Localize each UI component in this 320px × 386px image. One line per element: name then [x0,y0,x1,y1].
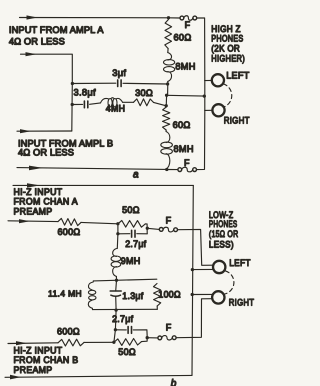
resistor 100ohm (vertical) [154,284,161,307]
node: top rail / 60ohm junction [167,16,170,19]
svg-text:HI-Z INPUT: HI-Z INPUT [14,345,63,355]
node: bottom rail / 8MH junction [165,168,168,171]
wire: LC tank bottom rail [93,308,158,310]
wire: 600ohm to chan B node [84,341,114,343]
capacitor 2.7uf (chan B) branch [115,329,126,331]
wire: stub to RIGHT phone jack (A) [205,109,213,111]
svg-text:FROM CHAN B: FROM CHAN B [14,355,79,365]
wire: 600ohm to chan A node [81,222,118,223]
inductor 11.4MH (vertical, loops left) [88,281,96,310]
resistor 50ohm (chan B) [114,339,142,346]
wire: fuse to corner, down to LEFT jack (B) [178,229,214,265]
phone jack RIGHT (low-Z) [212,291,224,303]
stereo plug dashed arc (B) [225,271,234,294]
inductor 8MH (top A, vertical) [164,53,175,82]
svg-text:60Ω: 60Ω [173,120,191,130]
svg-text:FROM CHAN A: FROM CHAN A [14,197,78,207]
capacitor 2.7uf (chan A) branch [118,224,130,234]
arrow: chan A input [19,219,30,223]
svg-text:2.7μf: 2.7μf [125,239,146,249]
node: LC tank top [115,279,118,282]
svg-text:LEFT: LEFT [226,70,249,81]
node: common tap on middle bus [165,94,168,97]
resistor 60ohm (top A, vertical) [165,20,172,49]
phone jack LEFT (low-Z) [213,261,225,273]
resistor 600ohm (chan A) [58,218,81,225]
svg-text:60Ω: 60Ω [174,33,192,43]
phone jack LEFT (high-Z) [212,74,224,86]
wire: junction to fuse [169,17,181,19]
wire: chan B input lead [8,342,58,345]
svg-text:4Ω OR LESS: 4Ω OR LESS [9,36,65,46]
svg-text:F: F [166,215,172,225]
svg-text:(2K OR: (2K OR [211,44,240,54]
node: chan B left node [112,341,115,344]
arrow: input rail 3 [20,129,31,133]
svg-text:LESS): LESS) [209,239,234,249]
wire: node to fuse (chan B) [147,337,158,339]
arrow: input rail 2 [26,52,37,56]
svg-text:8MH: 8MH [175,61,195,71]
wire: left bus down to input rail 3 [71,84,74,132]
svg-text:(15Ω OR: (15Ω OR [209,229,239,239]
wire: chan A right node vertical [145,224,147,234]
fuse F (chan A) [159,228,163,232]
svg-text:F: F [184,158,190,168]
stereo plug dashed arc (A) [223,84,231,107]
node: 30ohm joins middle bus [165,104,168,107]
svg-text:11.4 MH: 11.4 MH [48,289,82,299]
wire: bottom rail (chan B return) [5,375,192,377]
svg-text:3.8μf: 3.8μf [74,87,96,97]
svg-text:4Ω OR LESS: 4Ω OR LESS [18,148,74,158]
fuse F (chan B) [158,336,162,340]
svg-text:F: F [185,20,191,30]
node: bus / RIGHT jack sleeve stub [191,293,194,296]
svg-text:INPUT FROM AMPL A: INPUT FROM AMPL A [9,25,104,35]
svg-text:100Ω: 100Ω [158,290,181,300]
wire: fuse to right bus bottom corner [197,110,205,169]
svg-text:9MH: 9MH [121,256,141,266]
svg-text:8MH: 8MH [174,144,194,154]
svg-text:50Ω: 50Ω [122,205,140,215]
wire: fuse to top-right corner, right bus down [197,18,205,81]
svg-text:HIGHER): HIGHER) [211,54,245,64]
node: left bus / 3.8uf branch [71,103,74,106]
capacitor 3.8uf [83,101,85,108]
wire: 8MH to 3uf node [167,82,169,96]
wire: bottom rail channel A/B common [17,168,167,170]
fuse F (bottom A) [178,168,182,172]
svg-text:F: F [166,323,172,333]
wire: stub to LEFT phone jack (A) [205,79,212,81]
wire: junction to bottom fuse [167,169,178,171]
wire: 60ohm to 8MH (bottom A) [165,130,167,132]
svg-text:30Ω: 30Ω [135,88,153,98]
capacitor 1.3uf [110,290,121,292]
wire: LC tank top rail [93,279,156,281]
svg-text:50Ω: 50Ω [118,347,136,357]
wire: 3.8uf branch lead [72,103,82,105]
wire: right bus mid segment [204,81,206,111]
resistor 30ohm (horizontal) [134,99,154,106]
svg-text:RIGHT: RIGHT [224,115,250,126]
wire: 4MH to 30ohm [123,101,134,103]
inductor 8MH (bottom A, vertical) [161,132,173,169]
svg-text:b: b [171,379,177,386]
wire: 3.8uf to 4MH [90,103,101,104]
svg-text:1.3μf: 1.3μf [122,291,143,301]
wire: top rail circuit B (chan A return) [13,184,193,186]
arrow: bottom rail B [10,375,21,380]
phone jack RIGHT (high-Z) [212,104,224,116]
svg-text:4MH: 4MH [106,104,125,114]
svg-text:600Ω: 600Ω [57,327,80,337]
svg-text:PHONES: PHONES [211,34,243,44]
fuse F (top, channel A) [180,16,184,20]
wire: common bus vertical (B) [192,185,193,375]
node: common joins right bus [203,94,206,97]
svg-text:LEFT: LEFT [229,257,251,268]
svg-text:PREAMP: PREAMP [14,365,53,375]
inductor 4MH (horizontal, loops up) [101,98,123,107]
node: chan A right node / fuse tap [146,227,149,230]
wire: middle bus segment [165,95,167,107]
resistor 50ohm (chan A) [118,221,145,228]
wire: common wire to right bus [167,94,205,97]
svg-text:2.7μf: 2.7μf [112,314,133,324]
resistor 600ohm (chan B) [58,339,84,346]
arrow: input A top rail [27,15,38,19]
arrow: top rail B [27,183,40,187]
arrow: chan B input [16,341,27,345]
wire: 30ohm to middle bus [154,102,167,105]
svg-text:RIGHT: RIGHT [229,297,255,308]
capacitor 1.3uf top lead [115,280,118,291]
wire: 9MH to LC top node [115,277,117,281]
capacitor 3uf [117,80,119,87]
node: 3uf joins middle bus [166,82,169,85]
wire: top rail channel A hot [20,17,169,19]
wire: 100ohm bottom lead [156,306,158,309]
wire: tap down to chan B node [114,330,116,343]
wire: chan A node down to 9MH [116,234,119,249]
wire: input rail 3 (AMPL B) [17,130,72,132]
wire: input rail 2 (AMPL A return) [21,54,73,83]
resistor 60ohm (bottom A, vertical) [163,107,170,130]
inductor 9MH (vertical, loops left) [111,249,121,277]
node: LC tank bottom [114,308,117,311]
svg-text:HI-Z INPUT: HI-Z INPUT [14,187,63,197]
wire: chan A input lead [8,220,58,223]
node: left bus / 3uf branch [71,82,74,85]
node: chan B right node / fuse tap [146,336,149,339]
wire: fuse to corner, up to RIGHT jack (B) [176,299,212,338]
svg-text:3μf: 3μf [112,68,126,78]
node: chan A left node [116,222,119,225]
wire: chan A node to fuse [147,228,159,229]
wire: 60ohm to 8MH (top A) [167,49,169,53]
wire: sleeve stub to RIGHT jack (B) [192,293,213,295]
svg-text:HIGH Z: HIGH Z [211,24,241,34]
svg-text:600Ω: 600Ω [58,227,81,237]
wire: LC bottom to 2.7uf tap [114,310,117,330]
node: bus / LEFT jack sleeve stub [191,268,194,271]
wire: sleeve stub to LEFT jack (B) [192,268,213,270]
wire: chan B right node vertical [142,337,148,342]
wire: 3uf branch right segment [123,82,168,85]
arrow: bottom rail [29,166,43,171]
capacitor 1.3uf bottom lead [115,296,117,310]
svg-text:a: a [133,169,139,180]
wire: 3uf branch left segment [72,82,115,84]
svg-text:PREAMP: PREAMP [14,207,53,217]
svg-text:PHONES: PHONES [209,219,238,229]
node: 2.7uf (chan B) tap [114,328,117,331]
